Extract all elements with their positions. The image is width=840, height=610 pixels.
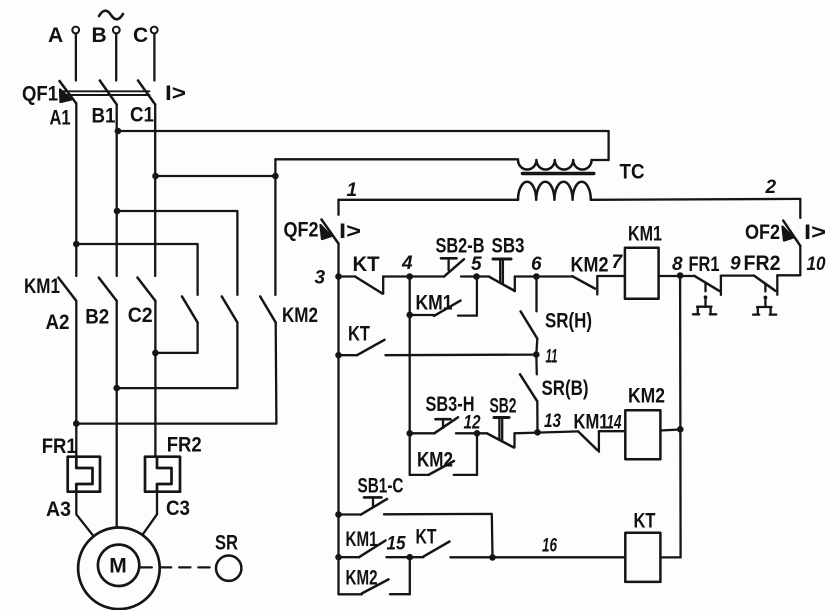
svg-text:2: 2	[765, 177, 777, 198]
svg-text:11: 11	[546, 347, 558, 368]
svg-text:9: 9	[730, 254, 741, 275]
svg-text:C: C	[133, 24, 148, 47]
svg-text:A3: A3	[46, 498, 71, 521]
svg-text:KT: KT	[353, 253, 380, 276]
svg-text:14: 14	[607, 413, 622, 434]
svg-text:1: 1	[347, 180, 358, 201]
svg-text:I>: I>	[339, 220, 361, 243]
svg-text:KM1: KM1	[24, 275, 60, 298]
svg-text:6: 6	[531, 254, 542, 275]
svg-text:KM2: KM2	[628, 385, 665, 408]
svg-text:KT: KT	[634, 510, 656, 533]
svg-text:KM2: KM2	[282, 304, 318, 327]
svg-text:C3: C3	[166, 497, 190, 520]
svg-text:4: 4	[401, 253, 413, 274]
svg-text:B: B	[92, 24, 107, 47]
svg-text:15: 15	[387, 534, 406, 555]
svg-text:3: 3	[315, 268, 326, 289]
svg-text:7: 7	[612, 252, 624, 273]
svg-text:B1: B1	[92, 105, 116, 128]
svg-text:FR2: FR2	[744, 252, 781, 275]
svg-text:SB3: SB3	[492, 235, 525, 258]
svg-text:SB3-H: SB3-H	[426, 393, 475, 416]
svg-text:C1: C1	[130, 104, 154, 127]
svg-text:SB1-C: SB1-C	[358, 475, 404, 498]
svg-text:SB2: SB2	[490, 395, 517, 418]
svg-text:SB2-B: SB2-B	[436, 235, 485, 258]
svg-text:SR: SR	[215, 532, 238, 555]
svg-text:OF2: OF2	[745, 221, 780, 244]
svg-text:SR(B): SR(B)	[542, 377, 589, 400]
svg-text:KM2: KM2	[346, 567, 378, 590]
svg-text:KT: KT	[416, 526, 437, 549]
svg-text:TC: TC	[620, 161, 645, 184]
svg-text:KM1: KM1	[416, 292, 453, 315]
svg-text:QF1: QF1	[22, 83, 58, 106]
svg-text:A2: A2	[46, 311, 70, 334]
svg-text:10: 10	[807, 254, 826, 275]
svg-text:16: 16	[542, 536, 557, 557]
svg-text:KM1: KM1	[628, 223, 662, 246]
svg-text:I>: I>	[804, 221, 826, 244]
svg-text:SR(H): SR(H)	[545, 310, 592, 333]
svg-text:KM1: KM1	[574, 411, 609, 434]
svg-text:FR1: FR1	[42, 435, 77, 458]
svg-text:A: A	[48, 24, 63, 47]
svg-text:C2: C2	[128, 304, 153, 327]
svg-text:8: 8	[672, 254, 683, 275]
svg-text:B2: B2	[85, 306, 109, 329]
svg-text:FR2: FR2	[167, 434, 202, 457]
svg-text:I>: I>	[165, 82, 186, 105]
svg-text:KT: KT	[348, 323, 370, 346]
svg-text:KM2: KM2	[571, 254, 609, 277]
svg-text:FR1: FR1	[689, 253, 720, 276]
svg-text:M: M	[109, 555, 127, 578]
svg-text:QF2: QF2	[284, 219, 319, 242]
svg-text:A1: A1	[50, 107, 71, 130]
svg-text:13: 13	[544, 411, 561, 432]
svg-text:KM2: KM2	[417, 449, 453, 472]
svg-text:KM1: KM1	[346, 528, 378, 551]
